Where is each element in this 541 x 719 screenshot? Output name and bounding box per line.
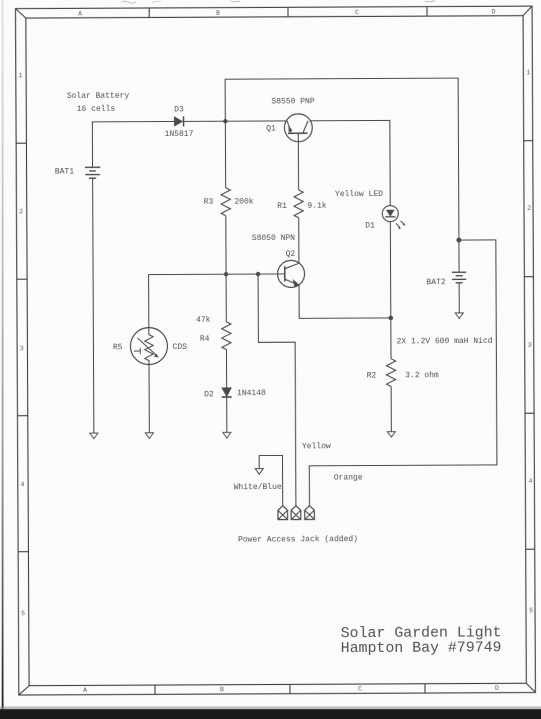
battery BAT2 [452,272,466,283]
svg-text:C: C [358,685,362,692]
diode D2 1N4148 [222,388,231,397]
svg-text:R2: R2 [367,371,377,380]
svg-text:47k: 47k [196,316,211,325]
svg-text:5: 5 [529,607,533,614]
wire: BAT2 junction to battery [458,240,460,272]
ground D2 [223,432,231,438]
junction node LED/R2/emitter [388,316,393,321]
svg-text:A: A [83,687,87,694]
junction node R3/R4/R5 [224,272,228,276]
jack pin 3 [305,506,315,520]
svg-text:2: 2 [19,208,23,215]
svg-text:Solar Battery: Solar Battery [67,92,130,101]
svg-text:4: 4 [528,478,532,485]
wire: D3 cathode to Q1 emitter [184,120,287,123]
transistor Q2 S8050 NPN [278,260,305,287]
wire: Q1 collector to LED branch [310,120,390,206]
ground BAT1 [90,433,98,439]
wire: white/blue, jack pin1 stub [259,455,283,505]
photoresistor R5 CDS [130,328,167,365]
wire: LED cathode to R2 [389,222,392,359]
junction node D3/R3/top-rail [223,119,227,123]
junction node Q2 base / yellow [256,272,260,276]
svg-text:Yellow LED: Yellow LED [335,190,383,199]
svg-text:Orange: Orange [334,474,363,483]
svg-text:R3: R3 [204,198,214,207]
svg-text:1N4148: 1N4148 [237,389,266,398]
wire: Q1 base to R1 [297,133,299,190]
svg-text:S8050 NPN: S8050 NPN [252,234,295,243]
svg-text:2: 2 [527,205,531,212]
wire: R2 bottom to ground [390,386,392,431]
resistor R3 200k [221,188,230,216]
svg-text:4: 4 [20,481,24,488]
svg-text:CDS: CDS [173,343,188,352]
svg-text:16 cells: 16 cells [77,105,116,114]
LED D1 [382,206,405,230]
wire: R3 bottom to node row [225,216,228,322]
svg-text:Yellow: Yellow [302,442,331,451]
svg-text:200k: 200k [234,198,253,207]
svg-text:D: D [495,685,499,692]
wire: R3 top [224,121,226,187]
svg-text:1: 1 [18,72,22,79]
svg-text:5: 5 [21,610,25,617]
svg-text:D: D [492,8,496,15]
svg-text:White/Blue: White/Blue [234,483,282,492]
svg-text:1: 1 [526,69,530,76]
svg-text:3.2 ohm: 3.2 ohm [405,371,439,380]
wire: orange return, BAT2 node to jack pin3 [308,240,497,506]
terminal white/blue [255,469,263,475]
transistor Q1 S8550 PNP [284,114,312,142]
svg-text:Hampton Bay #79749: Hampton Bay #79749 [341,640,502,657]
wire: R5 top to Q2 base row [149,274,285,335]
svg-text:1N5817: 1N5817 [165,130,194,139]
svg-text:B: B [220,686,224,693]
ground R2 [387,432,395,438]
svg-text:A: A [78,11,82,18]
diode D3 1N5817 [174,117,182,126]
svg-text:D3: D3 [174,106,184,115]
wire: yellow, Q2 base node to jack pin2 [258,274,296,506]
wire: R1 bottom to Q2 collector [298,218,300,263]
wire: R4 bottom to D2 [225,350,227,388]
junction node BAT2/top rail/orange [456,238,461,243]
ground R5 [145,433,153,439]
wire: R5 bottom [148,360,150,433]
wire: BAT1 bottom [93,178,94,433]
svg-text:Q1: Q1 [266,124,276,133]
svg-text:D1: D1 [365,221,375,230]
svg-text:R5: R5 [113,343,123,352]
jack pin 2 [291,506,301,520]
svg-text:C: C [355,9,359,16]
svg-text:9.1k: 9.1k [307,202,326,211]
svg-text:Power Access Jack (added): Power Access Jack (added) [238,535,358,545]
svg-text:S8550 PNP: S8550 PNP [271,97,314,106]
wire: BAT1 top to D3 [92,121,174,167]
svg-text:R1: R1 [277,202,287,211]
resistor R4 47k [222,322,231,350]
svg-text:2X 1.2V 600 maH Nicd: 2X 1.2V 600 maH Nicd [396,337,492,346]
svg-text:3: 3 [20,345,24,352]
ground BAT2 [455,313,463,319]
svg-text:D2: D2 [204,390,214,399]
battery BAT1 [85,167,100,178]
wire: D2 cathode to ground [226,397,228,432]
svg-text:BAT1: BAT1 [55,168,74,177]
wire: BAT2 bottom to ground [458,283,460,313]
svg-text:Q2: Q2 [286,250,296,259]
svg-text:R4: R4 [200,335,210,344]
wire: top rail [225,78,459,241]
wire: Q2 emitter to LED/R2 node [299,284,391,318]
resistor R2 3.2 ohm [386,359,395,387]
svg-text:B: B [216,10,220,17]
svg-text:BAT2: BAT2 [426,278,445,287]
svg-text:3: 3 [528,342,532,349]
jack pin 1 [278,506,288,520]
resistor R1 9.1k [294,190,303,218]
